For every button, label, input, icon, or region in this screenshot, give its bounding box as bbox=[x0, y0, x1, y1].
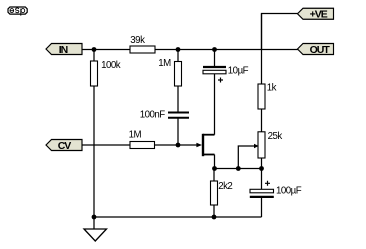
svg-text:100µF: 100µF bbox=[276, 186, 302, 197]
svg-text:100nF: 100nF bbox=[140, 110, 166, 121]
svg-text:25k: 25k bbox=[268, 131, 283, 142]
svg-text:1k: 1k bbox=[267, 83, 277, 94]
svg-text:+VE: +VE bbox=[310, 9, 328, 21]
svg-text:100k: 100k bbox=[101, 60, 121, 71]
svg-text:1M: 1M bbox=[129, 130, 142, 141]
svg-text:IN: IN bbox=[59, 44, 68, 56]
svg-text:39k: 39k bbox=[130, 35, 145, 46]
svg-text:10µF: 10µF bbox=[228, 66, 249, 77]
svg-text:1M: 1M bbox=[158, 58, 171, 69]
svg-text:OUT: OUT bbox=[310, 44, 331, 56]
svg-text:CV: CV bbox=[58, 140, 72, 152]
svg-text:2k2: 2k2 bbox=[218, 181, 232, 192]
